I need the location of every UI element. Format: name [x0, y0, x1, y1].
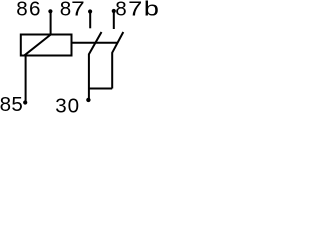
- svg-text:30: 30: [55, 94, 80, 117]
- svg-text:8: 8: [60, 0, 71, 20]
- svg-text:7: 7: [128, 0, 142, 20]
- svg-text:85: 85: [0, 93, 23, 116]
- svg-text:b: b: [144, 0, 159, 20]
- svg-text:7: 7: [71, 0, 85, 20]
- svg-text:86: 86: [16, 0, 42, 20]
- svg-text:8: 8: [115, 0, 126, 20]
